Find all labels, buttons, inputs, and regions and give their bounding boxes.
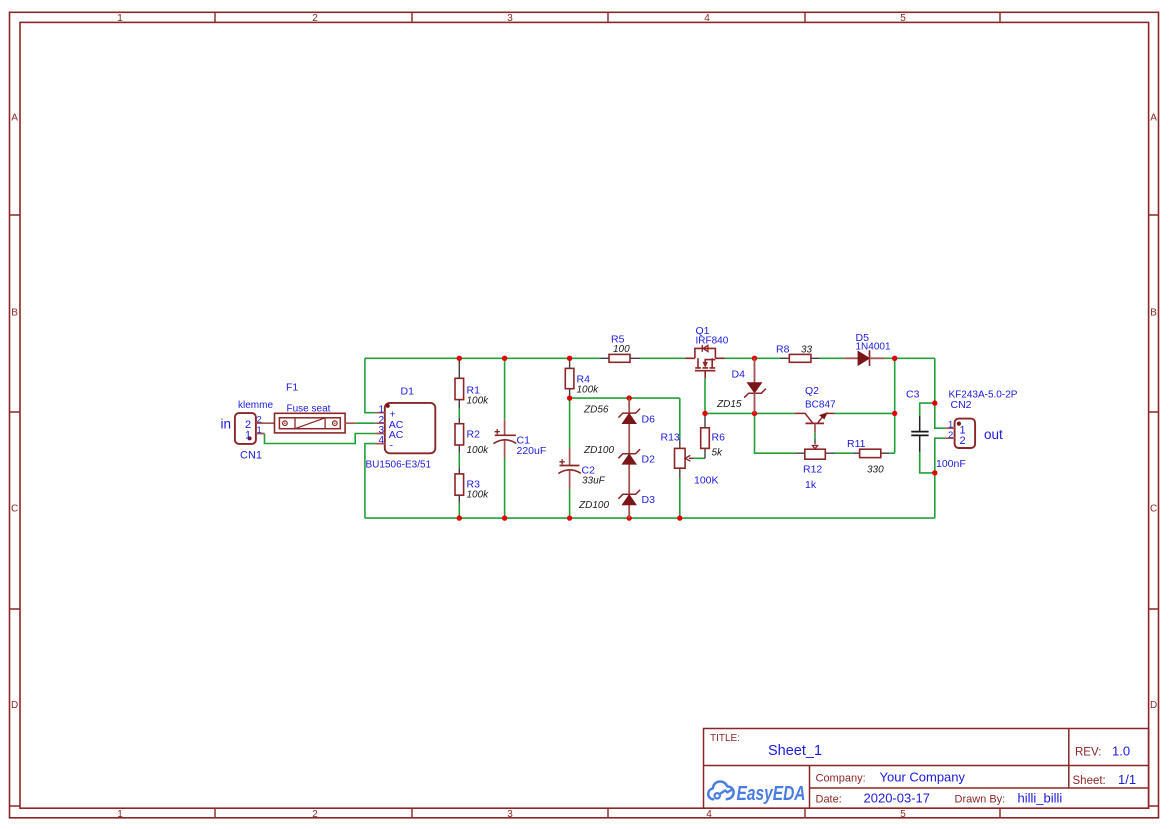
junction gate line D4 [752, 411, 757, 416]
junction C3 top [932, 400, 937, 405]
svg-text:B: B [11, 308, 18, 319]
svg-text:1: 1 [117, 13, 123, 24]
wire R13 branch lower [679, 478, 681, 519]
frame row ticks left [10, 215, 21, 806]
frame row ticks right [1149, 215, 1159, 806]
svg-text:D: D [11, 700, 18, 711]
wire R12 to R11 [835, 452, 853, 454]
junction top rail R4 [567, 356, 572, 361]
svg-text:1: 1 [245, 430, 251, 442]
svg-text:33uF: 33uF [582, 476, 606, 487]
wire R1 chain gaps [458, 408, 460, 518]
svg-text:D3: D3 [642, 494, 656, 506]
junction bottom rail C2 [567, 515, 572, 520]
svg-text:Sheet_1: Sheet_1 [768, 743, 822, 759]
svg-text:220uF: 220uF [517, 445, 547, 457]
fuse F1 [256, 413, 355, 433]
resistor R1 [455, 361, 464, 408]
capacitor C1 [494, 419, 517, 458]
svg-text:100k: 100k [467, 490, 490, 501]
wire C3 top branch [920, 403, 935, 416]
zener diode D4 [744, 358, 766, 413]
svg-text:2: 2 [312, 809, 318, 820]
svg-text:A: A [11, 113, 18, 124]
resistor R3 [455, 467, 464, 503]
svg-text:5k: 5k [712, 448, 724, 459]
wire D1 pin1 riser [365, 358, 375, 412]
svg-text:ZD100: ZD100 [583, 445, 614, 456]
wire C3 bottom branch [920, 452, 935, 473]
svg-text:1: 1 [378, 404, 384, 415]
junction gate line R6 [702, 411, 707, 416]
svg-text:100k: 100k [467, 445, 490, 456]
svg-text:R6: R6 [712, 432, 726, 444]
svg-text:100K: 100K [694, 475, 719, 487]
wire CN2 pin2 return [935, 438, 945, 518]
resistor R5 [600, 354, 640, 362]
wire fuse to D1 pin2 [355, 422, 375, 424]
wire CN1 pin1 to D1 pin3 [265, 434, 376, 444]
junction dots [457, 356, 938, 521]
wire R11 to right vertical [890, 452, 895, 454]
svg-text:D1: D1 [401, 386, 415, 398]
wire C1 branch [504, 358, 506, 518]
wire top rail R8 to D5 [820, 357, 844, 359]
zener diode chain lead [628, 398, 630, 518]
svg-text:1: 1 [257, 425, 262, 436]
svg-text:Fuse seat: Fuse seat [287, 404, 331, 415]
junction bottom rail C1 [502, 515, 507, 520]
resistor R8 [780, 354, 820, 362]
svg-text:in: in [221, 417, 232, 432]
frame row labels left [11, 113, 18, 712]
svg-text:hilli_billi: hilli_billi [1018, 791, 1063, 806]
svg-text:3: 3 [507, 809, 513, 820]
svg-text:100k: 100k [467, 396, 490, 407]
frame row labels right [1150, 113, 1157, 712]
svg-text:4: 4 [704, 13, 710, 24]
diode D5 [844, 350, 884, 366]
junction bottom rail R3 [457, 515, 462, 520]
svg-text:A: A [1150, 113, 1157, 124]
svg-text:R4: R4 [577, 374, 591, 386]
junction top rail R1 [457, 356, 462, 361]
wire control line D4 to Q2 collector [755, 412, 796, 414]
svg-text:TITLE:: TITLE: [710, 733, 740, 744]
svg-text:2: 2 [948, 430, 953, 441]
resistor R4 [565, 361, 574, 396]
svg-text:330: 330 [867, 465, 884, 476]
svg-text:R11: R11 [847, 438, 866, 450]
wire Q1 gate down [704, 378, 706, 413]
svg-text:CN1: CN1 [240, 450, 262, 462]
svg-text:klemme: klemme [238, 400, 273, 411]
mosfet Q1 [686, 348, 725, 378]
wire R13 wiper link [694, 457, 706, 459]
svg-text:1N4001: 1N4001 [856, 341, 891, 352]
connector CN1 [235, 413, 265, 444]
svg-text:ZD100: ZD100 [578, 500, 609, 511]
svg-text:IRF840: IRF840 [696, 336, 729, 347]
wire right vertical R8 node [894, 358, 896, 453]
capacitor C3 [911, 416, 928, 452]
junction emitter line right [892, 411, 897, 416]
junction top rail C1 [502, 356, 507, 361]
junction top rail D4 [752, 356, 757, 361]
wire top rail R5 to Q1 [640, 357, 686, 359]
bridge rectifier D1 [375, 403, 435, 453]
svg-text:C: C [11, 504, 18, 515]
svg-text:33: 33 [801, 345, 813, 356]
svg-text:C: C [1150, 504, 1157, 515]
svg-text:D: D [1150, 700, 1157, 711]
capacitor C2 [558, 448, 581, 489]
svg-text:Sheet:: Sheet: [1073, 775, 1106, 787]
wire Q2 base small segment [814, 433, 816, 439]
wire D1 pin4 to bottom rail [365, 444, 375, 518]
svg-text:B: B [1150, 308, 1157, 319]
svg-text:1: 1 [117, 809, 123, 820]
svg-text:Drawn By:: Drawn By: [955, 794, 1006, 806]
zener diode D2 [618, 449, 640, 464]
mosfet Q1 substrate arrow [703, 360, 707, 366]
svg-text:out: out [984, 427, 1003, 442]
svg-text:Company:: Company: [816, 773, 866, 785]
wire Q2 emitter to right vertical [835, 412, 895, 414]
mosfet Q1 body diode [702, 345, 708, 352]
svg-text:BU1506-E3/51: BU1506-E3/51 [366, 460, 432, 471]
wire top rail Q1 to R8 [725, 357, 780, 359]
svg-text:-: - [390, 439, 394, 451]
svg-text:D6: D6 [642, 414, 656, 426]
resistor R2 [455, 418, 464, 453]
svg-text:100k: 100k [577, 385, 600, 396]
wire node line under R4 [570, 397, 680, 399]
title block frame [704, 729, 1149, 809]
junction node zener top [627, 395, 632, 400]
svg-text:2020-03-17: 2020-03-17 [864, 791, 931, 806]
resistor R6 [701, 416, 710, 458]
svg-text:5: 5 [900, 809, 906, 820]
frame column labels top [117, 13, 906, 24]
svg-text:ZD15: ZD15 [716, 399, 742, 410]
frame column ticks bottom [215, 808, 1000, 818]
svg-text:1k: 1k [805, 479, 817, 491]
svg-text:5: 5 [900, 13, 906, 24]
svg-text:EasyEDA: EasyEDA [737, 783, 806, 805]
potentiometer R12 [795, 439, 835, 459]
wire output top corner down [935, 358, 945, 428]
svg-text:D4: D4 [732, 369, 746, 381]
svg-text:4: 4 [378, 435, 384, 446]
svg-text:R13: R13 [661, 432, 680, 444]
wire control line gate to D4 [705, 412, 755, 414]
svg-text:Q2: Q2 [805, 385, 819, 397]
svg-text:R2: R2 [467, 429, 481, 441]
svg-text:C3: C3 [906, 389, 920, 401]
junction bottom rail R13 [677, 515, 682, 520]
svg-text:R12: R12 [803, 464, 822, 476]
svg-text:1.0: 1.0 [1112, 744, 1130, 759]
wire R13 branch upper [679, 398, 681, 438]
junction top rail D5 out [892, 356, 897, 361]
potentiometer R13 [675, 438, 694, 477]
wire top rail left segment [365, 357, 600, 359]
svg-text:R8: R8 [776, 344, 790, 356]
frame column ticks top [215, 12, 1000, 22]
svg-text:Date:: Date: [816, 794, 842, 806]
junction bottom rail D3 [627, 515, 632, 520]
zener diode D3 [618, 490, 640, 505]
svg-text:100nF: 100nF [936, 458, 966, 470]
svg-text:BC847: BC847 [805, 400, 836, 411]
svg-text:2: 2 [960, 435, 966, 447]
junction C3 bottom [932, 470, 937, 475]
frame column labels bottom [117, 809, 906, 820]
wire top rail D5 to right corner [884, 357, 934, 359]
wire D4 down to R12 line [755, 413, 796, 453]
svg-text:CN2: CN2 [951, 399, 972, 411]
resistor R11 [853, 449, 890, 457]
EasyEDA logo [708, 781, 805, 804]
junction node R4 bottom [567, 395, 572, 400]
connector CN2 [945, 419, 975, 448]
svg-text:REV:: REV: [1075, 747, 1101, 759]
wire C2 branch [569, 398, 571, 518]
svg-text:3: 3 [507, 13, 513, 24]
svg-text:4: 4 [706, 809, 712, 820]
zener diode D6 [618, 409, 640, 424]
wire bottom rail [365, 517, 935, 519]
transistor Q2 [795, 413, 835, 433]
svg-text:Your Company: Your Company [880, 770, 966, 785]
svg-text:ZD56: ZD56 [583, 405, 609, 416]
svg-text:2: 2 [312, 13, 318, 24]
svg-text:D2: D2 [642, 454, 656, 466]
svg-text:1/1: 1/1 [1118, 772, 1136, 787]
svg-text:F1: F1 [286, 382, 298, 394]
svg-text:100: 100 [613, 344, 630, 355]
